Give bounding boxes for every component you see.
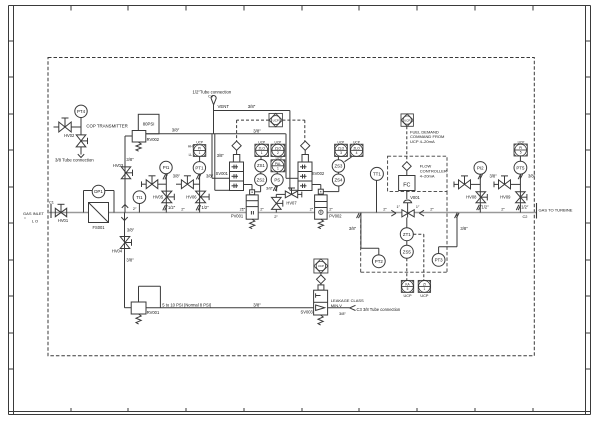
svg-text:4–20mA: 4–20mA: [420, 174, 435, 179]
svg-text:L O: L O: [32, 218, 38, 223]
svg-text:PT1: PT1: [195, 165, 204, 170]
svg-text:2″: 2″: [133, 206, 137, 211]
wire SV001 to PV001: [244, 185, 253, 190]
pilot box 80PSI: [138, 114, 159, 134]
instrument PI2: [474, 162, 497, 213]
svg-text:SV001: SV001: [216, 171, 229, 176]
svg-text:PAL: PAL: [275, 162, 281, 166]
svg-text:DP1: DP1: [94, 189, 103, 194]
svg-text:4: 4: [356, 151, 358, 155]
svg-text:5 to 10 PSI (Normal 8 PS: 5 to 10 PSI (Normal 8 PSI): [162, 302, 212, 307]
svg-text:3/8″: 3/8″: [248, 104, 256, 109]
svg-text:3/8″: 3/8″: [206, 174, 214, 179]
instrument ZI1: [418, 280, 430, 298]
svg-text:2″: 2″: [260, 206, 264, 211]
svg-text:UCP: UCP: [318, 264, 324, 268]
signal dashed ZT1 to ZI1: [413, 234, 424, 281]
instrument ZS3: [332, 157, 351, 173]
svg-text:3/8″: 3/8″: [253, 302, 261, 307]
svg-text:RV002: RV002: [147, 137, 160, 142]
wire to RV001: [125, 307, 132, 309]
controller FC: [399, 171, 415, 191]
svg-text:ZS5: ZS5: [403, 249, 412, 254]
svg-text:C1: C1: [49, 200, 54, 205]
svg-text:TT1: TT1: [373, 171, 381, 176]
svg-text:PT4: PT4: [77, 109, 86, 114]
svg-text:HV02: HV02: [64, 133, 75, 138]
instrument PI1: [160, 161, 181, 212]
valve test PI2: [454, 176, 480, 189]
svg-text:2″: 2″: [242, 206, 246, 211]
svg-text:3/8″: 3/8″: [126, 157, 134, 162]
svg-text:PV002: PV002: [329, 214, 342, 219]
svg-text:HH: HH: [188, 144, 193, 148]
regulator RV001: [131, 302, 160, 324]
svg-text:UCP 4–20mA: UCP 4–20mA: [410, 139, 435, 144]
svg-text:C3 3/8 Tube connection: C3 3/8 Tube connection: [357, 307, 401, 312]
svg-text:3/8″: 3/8″: [460, 226, 468, 231]
svg-text:HV09: HV09: [500, 195, 511, 200]
solenoid SV003: [301, 273, 328, 325]
instrument ZS5: [400, 241, 413, 259]
wire SV002 to PV002: [312, 185, 321, 190]
valve HV07 upper: [276, 188, 302, 198]
filter FS001: [89, 203, 109, 230]
instrument ZLO2: [271, 140, 285, 156]
svg-text:1: 1: [261, 151, 263, 155]
svg-text:HV04: HV04: [112, 249, 123, 254]
valve test PI1: [142, 176, 167, 189]
label sizes V001: [383, 205, 434, 211]
label fuel demand: [410, 129, 445, 144]
wire vent header: [214, 111, 299, 191]
svg-text:2″: 2″: [310, 207, 314, 212]
wire SV001 feed b: [215, 134, 230, 191]
svg-text:LL: LL: [189, 153, 193, 157]
svg-text:RV001: RV001: [147, 310, 160, 315]
node C2: [523, 203, 537, 219]
svg-text:COP TRANSMITTER: COP TRANSMITTER: [86, 124, 127, 129]
instrument ZS1: [255, 157, 267, 172]
svg-text:3/8″: 3/8″: [172, 127, 180, 132]
instrument ZLO3: [335, 140, 348, 156]
instrument PS: [271, 172, 283, 186]
instrument PI5 gauge: [514, 140, 527, 156]
svg-text:UCP: UCP: [196, 141, 203, 145]
valve test PT1: [176, 176, 200, 189]
svg-text:ZS1: ZS1: [257, 163, 265, 168]
wire PT3 branch: [439, 213, 469, 254]
svg-text:3/8″: 3/8″: [126, 258, 134, 263]
node C4 vent connection: [208, 95, 216, 105]
svg-text:3/8″: 3/8″: [266, 186, 274, 191]
instrument ZS2: [255, 172, 267, 186]
svg-text:MIN.V: MIN.V: [331, 303, 342, 308]
svg-text:PI: PI: [198, 147, 201, 151]
svg-text:ZS2: ZS2: [257, 177, 265, 182]
svg-text:UCP: UCP: [338, 140, 345, 144]
instrument UCP command: [269, 113, 282, 126]
svg-text:80PSI: 80PSI: [143, 122, 155, 127]
svg-text:C2: C2: [523, 214, 528, 219]
svg-text:3/8″: 3/8″: [339, 311, 346, 316]
svg-text:3/8 Tube connection: 3/8 Tube connection: [55, 157, 94, 162]
svg-text:3/8″: 3/8″: [349, 226, 357, 231]
instrument UCP SV003: [314, 259, 328, 273]
svg-text:PI2: PI2: [477, 165, 484, 170]
svg-text:UCP: UCP: [420, 294, 428, 298]
svg-text:ZS4: ZS4: [334, 178, 342, 183]
svg-text:UCP: UCP: [353, 140, 360, 144]
svg-text:VENT: VENT: [218, 104, 230, 109]
label leakage class: [331, 298, 364, 308]
instrument UCP fuel demand: [401, 114, 413, 126]
svg-text:1: 1: [199, 151, 201, 155]
svg-text:PT5: PT5: [516, 165, 525, 170]
instrument ZLO4: [350, 140, 363, 156]
reducer right: [419, 210, 424, 216]
dashed box flow controller: [388, 156, 447, 191]
wire RV002 outlet header: [146, 133, 286, 135]
svg-text:1/2″: 1/2″: [482, 205, 490, 210]
svg-text:PT2: PT2: [375, 259, 384, 264]
svg-text:ZT1: ZT1: [403, 232, 411, 237]
svg-text:3/8″: 3/8″: [217, 153, 225, 158]
signal dashed UCP to FC: [406, 126, 408, 162]
svg-text:SV003: SV003: [301, 309, 314, 314]
svg-text:PI1: PI1: [163, 165, 170, 170]
valve HV03: [113, 157, 134, 179]
svg-text:ZLO: ZLO: [258, 146, 265, 150]
instrument ZT1: [400, 218, 413, 241]
svg-text:1: 1: [277, 167, 279, 171]
valve HV02: [54, 118, 82, 138]
dashed box ZT1 group: [361, 191, 447, 272]
svg-text:PT3: PT3: [435, 257, 444, 262]
svg-text:ZLO: ZLO: [353, 146, 360, 150]
valve PV002: [310, 189, 343, 228]
solenoid SV001: [216, 141, 244, 190]
svg-text:HV03: HV03: [113, 163, 124, 168]
svg-text:PS: PS: [274, 177, 280, 182]
instrument ZS4: [332, 172, 344, 186]
valve PV001: [231, 190, 265, 229]
svg-text:1: 1: [424, 287, 426, 291]
svg-text:HV06: HV06: [186, 195, 197, 200]
svg-text:1/2″Tube connection: 1/2″Tube connection: [193, 89, 232, 94]
wire low pressure header: [146, 307, 314, 309]
signal dashed to SV001: [237, 120, 269, 141]
wire ZS4 to PV002 actuator: [323, 186, 339, 192]
wire C4 riser: [213, 105, 215, 134]
svg-text:UCP: UCP: [403, 294, 411, 298]
wire PS to HV07 riser: [266, 186, 278, 192]
wire riser to RV002: [122, 136, 132, 213]
regulator RV002: [132, 131, 160, 152]
instrument DP1: [84, 185, 115, 212]
svg-text:PV001: PV001: [231, 214, 244, 219]
svg-text:2″: 2″: [430, 207, 434, 212]
svg-text:3/8″: 3/8″: [528, 173, 536, 178]
svg-text:2″: 2″: [383, 207, 387, 212]
valve V001: [402, 191, 421, 218]
reducer left: [391, 210, 396, 216]
valve test PT5: [494, 176, 520, 189]
instrument PT3: [432, 254, 445, 267]
svg-text:C4: C4: [208, 95, 213, 99]
svg-text:3/8″: 3/8″: [173, 174, 181, 179]
svg-text:3/8″: 3/8″: [490, 173, 498, 178]
svg-text:UCP: UCP: [275, 140, 282, 144]
svg-text:UCP: UCP: [404, 118, 410, 122]
svg-text:SV002: SV002: [312, 171, 325, 176]
svg-text:ZLO: ZLO: [338, 146, 345, 150]
valve HV08: [466, 192, 489, 210]
svg-text:5: 5: [520, 151, 522, 155]
svg-text:5: 5: [407, 287, 409, 291]
instrument PAL1: [271, 156, 285, 171]
skid boundary dashed box: [48, 58, 534, 356]
svg-text:V001: V001: [410, 195, 420, 200]
instrument ZLO1: [255, 140, 269, 156]
node C1: [49, 200, 54, 218]
svg-text:FC: FC: [403, 182, 410, 188]
solenoid diamond FC: [402, 162, 411, 171]
signal dashed ZS5 to KA5: [406, 258, 408, 281]
svg-text:UCP: UCP: [258, 140, 265, 144]
wire RV001 feedback loop: [139, 286, 161, 308]
valve HV06: [186, 191, 209, 210]
svg-text:HV07: HV07: [286, 201, 297, 206]
instrument TT1: [370, 167, 383, 212]
svg-text:TI1: TI1: [136, 195, 143, 200]
instrument PI1 HH gauge: [188, 141, 206, 162]
signal dashed to SV002: [282, 120, 304, 141]
valve HV05: [153, 191, 176, 210]
valve HV09: [500, 192, 529, 210]
svg-text:GAS INLET: GAS INLET: [23, 211, 44, 216]
wire PT2 branch: [349, 213, 379, 255]
instrument TI1: [133, 191, 146, 213]
label flow controller: [420, 164, 447, 179]
label GAS INLET: [23, 211, 44, 223]
svg-text:2″: 2″: [274, 214, 278, 219]
svg-text:2″: 2″: [329, 207, 333, 212]
svg-text:1/2″: 1/2″: [521, 205, 529, 210]
instrument PT5: [514, 156, 536, 213]
svg-text:PI: PI: [519, 146, 522, 150]
valve HV07 lower: [272, 194, 298, 218]
svg-text:ZLO: ZLO: [275, 146, 282, 150]
wire SV002 feed a: [286, 134, 298, 179]
svg-text:HV08: HV08: [466, 195, 477, 200]
svg-text:ZS3: ZS3: [334, 164, 342, 169]
svg-text:FS001: FS001: [92, 225, 105, 230]
wire SV003 outlet: [328, 305, 356, 310]
svg-text:3/8″: 3/8″: [253, 129, 261, 134]
svg-text:3/8″: 3/8″: [127, 227, 135, 232]
svg-text:HV05: HV05: [153, 195, 164, 200]
svg-text:1/2″: 1/2″: [202, 205, 210, 210]
wire main gas line: [48, 212, 537, 214]
svg-text:3: 3: [340, 151, 342, 155]
svg-text:1/2″: 1/2″: [168, 205, 176, 210]
valve HV04: [112, 237, 134, 263]
wire ZS2 to PV001 actuator: [255, 186, 261, 192]
instrument PT4: [75, 105, 87, 135]
instrument PT2: [372, 255, 385, 268]
valve HV01: [55, 204, 69, 223]
wire drop to HV04: [121, 213, 127, 308]
wire SV001 feed a: [212, 134, 230, 179]
solenoid SV002: [298, 141, 325, 190]
svg-text:2″: 2″: [181, 206, 185, 211]
instrument KA5: [401, 280, 413, 298]
svg-text:2: 2: [277, 151, 279, 155]
svg-text:UCP: UCP: [273, 118, 279, 122]
svg-text:ZI: ZI: [423, 283, 426, 287]
svg-text:2″: 2″: [501, 206, 505, 211]
svg-text:GAS TO TURBINE: GAS TO TURBINE: [539, 207, 573, 212]
valve vent below PT4: [76, 135, 87, 158]
svg-text:HV01: HV01: [58, 218, 69, 223]
instrument PT1: [193, 162, 213, 213]
